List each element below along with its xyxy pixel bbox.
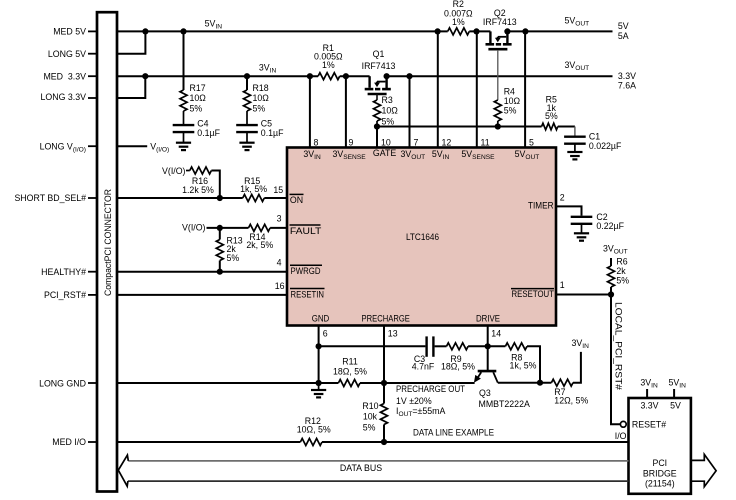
junction 5V rail / LONG 5V (142, 28, 148, 34)
pin tick MED 5V (88, 30, 97, 32)
svg-text:14: 14 (491, 329, 501, 339)
wire RESETOUT pin 1 (556, 294, 611, 296)
svg-text:RESETIN: RESETIN (291, 289, 325, 299)
svg-text:5: 5 (529, 137, 534, 147)
svg-text:HEALTHY#: HEALTHY# (41, 267, 86, 277)
svg-text:3.3V: 3.3V (618, 71, 636, 81)
pin tick LONG 3.3V (88, 97, 97, 99)
svg-text:16: 16 (275, 281, 285, 291)
svg-text:DRIVE: DRIVE (476, 313, 500, 323)
junction 3V rail / pin 9 (343, 73, 349, 79)
svg-text:IRF7413: IRF7413 (483, 17, 517, 27)
svg-text:R11: R11 (342, 357, 358, 367)
junction 5V rail / pin 5 (522, 28, 528, 34)
svg-text:DATA BUS: DATA BUS (340, 463, 382, 473)
junction comp line / pin 14 (485, 343, 491, 349)
svg-text:12: 12 (442, 137, 452, 147)
bridge 5V pin stub (673, 389, 675, 398)
resistor R15 (243, 195, 265, 202)
wire LONG 5V stub (117, 31, 145, 53)
bridge 3V pin stub (646, 389, 648, 398)
svg-text:10: 10 (381, 137, 391, 147)
svg-text:MED I/O: MED I/O (52, 437, 86, 447)
wire HEALTHY / PWRGD pin 4 (117, 271, 287, 273)
svg-text:5V: 5V (670, 400, 681, 410)
data bus right arrow (691, 454, 716, 486)
pin 11 stub (476, 31, 478, 147)
label R12 (297, 416, 331, 434)
pin tick LONG 5V (88, 53, 97, 55)
label R11 (333, 357, 367, 377)
svg-text:FAULT: FAULT (290, 226, 322, 236)
transistor Q2 (486, 28, 512, 100)
svg-text:Q1: Q1 (373, 49, 385, 59)
svg-text:10k: 10k (363, 412, 378, 422)
svg-text:3VOUT: 3VOUT (603, 243, 628, 255)
svg-text:13: 13 (388, 329, 398, 339)
ground C5 (239, 143, 254, 150)
svg-text:Q3: Q3 (479, 388, 491, 398)
svg-text:R10: R10 (362, 401, 378, 411)
svg-text:3VOUT: 3VOUT (565, 60, 590, 72)
label R2 (444, 0, 473, 27)
label R5 (545, 94, 558, 121)
svg-text:LONG 3.3V: LONG 3.3V (41, 92, 87, 102)
svg-text:RESET#: RESET# (632, 420, 666, 430)
svg-text:5%: 5% (545, 111, 558, 121)
svg-text:PWRGD: PWRGD (291, 266, 321, 276)
svg-text:PCI_RST#: PCI_RST# (44, 290, 86, 300)
pin 10 stub (376, 127, 378, 148)
svg-text:LOCAL_PCI_RST#: LOCAL_PCI_RST# (613, 302, 623, 390)
wire PRECHARGE OUT line (384, 382, 475, 384)
svg-text:1V ±20%: 1V ±20% (396, 396, 432, 406)
wire PCI_RST / RESETIN pin 16 (117, 294, 287, 296)
svg-text:5VIN: 5VIN (669, 377, 687, 389)
svg-text:9: 9 (349, 137, 354, 147)
pin 12 stub (437, 31, 439, 147)
wire LONG 3.3V stub (117, 76, 145, 98)
svg-text:2k, 5%: 2k, 5% (246, 240, 273, 250)
resistor R12 (300, 439, 322, 446)
svg-text:0.1µF: 0.1µF (197, 128, 220, 138)
svg-text:R3: R3 (382, 95, 393, 105)
data bus shaft bottom (128, 480, 629, 482)
svg-text:LONG V(I/O): LONG V(I/O) (40, 141, 86, 153)
ground GND pin (311, 383, 326, 397)
capacitor C5 (236, 125, 258, 143)
resistor R2 (448, 28, 470, 35)
junction comp line / pin 6 (316, 343, 322, 349)
svg-text:10Ω: 10Ω (253, 93, 270, 103)
svg-text:CompactPCI CONNECTOR: CompactPCI CONNECTOR (103, 189, 113, 296)
junction gate line / pin 10 (374, 123, 380, 129)
junction GND line / pin 13 (381, 380, 387, 386)
label R1 (314, 43, 343, 70)
svg-text:PRECHARGE OUT: PRECHARGE OUT (396, 384, 466, 394)
svg-text:10Ω: 10Ω (190, 93, 207, 103)
junction collector line / R8 (537, 380, 543, 386)
wire LONG GND line (117, 382, 384, 384)
pin 14 stub (487, 326, 489, 372)
junction GND line / pin 6 (316, 380, 322, 386)
junction 5V rail / pin 12 (435, 28, 441, 34)
resistor R9 (447, 343, 469, 350)
svg-text:I/O: I/O (615, 431, 627, 441)
label R14 (246, 232, 273, 250)
wire collector line (498, 352, 581, 383)
junction 3V rail / pin 8 (307, 73, 313, 79)
capacitor C2 (571, 217, 593, 234)
svg-text:V(I/O): V(I/O) (182, 222, 206, 232)
LTC1646 box (287, 148, 556, 326)
junction gate line / R4 (495, 123, 501, 129)
pin 7 stub (409, 76, 411, 147)
svg-text:5%: 5% (363, 423, 376, 433)
svg-text:MED 3.3V: MED 3.3V (43, 71, 86, 81)
resistor R10 (381, 383, 388, 442)
wire LOCAL_PCI_RST# (611, 295, 620, 425)
svg-text:3VIN: 3VIN (640, 377, 658, 389)
svg-text:3VIN: 3VIN (259, 63, 277, 75)
svg-text:1%: 1% (452, 17, 465, 27)
ground C4 (176, 143, 191, 150)
svg-text:2: 2 (560, 192, 565, 202)
pin 13 stub (383, 326, 385, 384)
resistor R3 (374, 95, 381, 127)
svg-text:0.022µF: 0.022µF (589, 141, 622, 151)
svg-text:PRECHARGE: PRECHARGE (362, 313, 410, 323)
svg-text:BRIDGE: BRIDGE (643, 469, 677, 479)
svg-text:8: 8 (314, 137, 319, 147)
data bus left arrowhead (118, 455, 128, 486)
wire GATE line (377, 126, 575, 128)
svg-text:PCI: PCI (652, 458, 667, 468)
pin 6 stub (318, 326, 320, 384)
svg-text:5%: 5% (382, 117, 395, 127)
svg-text:5%: 5% (190, 103, 203, 113)
label R16 (182, 176, 214, 195)
wire compensation line (319, 346, 540, 382)
wire SHORT BD_SEL / ON pin 15 (117, 197, 287, 199)
junction 5V rail / pin 11 (473, 28, 479, 34)
svg-text:3: 3 (277, 214, 282, 224)
resistor R4 (494, 100, 501, 127)
label Q2 (483, 8, 517, 27)
pin 9 stub (345, 76, 347, 147)
transistor Q1 (365, 73, 391, 100)
resistor R14 (249, 224, 271, 231)
label R8 (510, 352, 537, 370)
CompactPCI connector box (97, 12, 117, 491)
svg-text:SHORT BD_SEL#: SHORT BD_SEL# (14, 193, 86, 203)
label R15 (240, 176, 267, 194)
svg-text:0.22µF: 0.22µF (596, 221, 624, 231)
svg-text:GATE: GATE (373, 148, 396, 158)
svg-text:5VIN: 5VIN (205, 19, 223, 31)
PCI bridge box (629, 398, 691, 494)
svg-text:3VIN: 3VIN (572, 338, 590, 350)
svg-text:5V: 5V (618, 21, 629, 31)
svg-text:5VOUT: 5VOUT (565, 16, 590, 28)
pin tick LONG V(I/O) (88, 145, 97, 147)
capacitor C4 (173, 125, 195, 143)
svg-text:5%: 5% (616, 276, 629, 286)
svg-text:MMBT2222A: MMBT2222A (479, 399, 530, 409)
svg-text:MED 5V: MED 5V (53, 27, 86, 37)
svg-text:V(I/O): V(I/O) (150, 141, 169, 153)
wire FAULT pin 3 (207, 227, 288, 229)
svg-text:R4: R4 (504, 87, 515, 97)
capacitor C3 (427, 336, 434, 356)
wire 3VIN rail (117, 75, 613, 77)
resistor R8 (505, 343, 527, 350)
junction 3V rail / pin 7 (406, 73, 412, 79)
svg-text:5A: 5A (618, 31, 629, 41)
capacitor C1 (564, 137, 586, 152)
svg-text:GND: GND (312, 313, 330, 323)
label R9 (441, 354, 475, 372)
pin tick HEALTHY# (88, 271, 97, 273)
svg-text:4.7nF: 4.7nF (412, 362, 435, 372)
svg-text:5%: 5% (504, 106, 517, 116)
svg-text:ON: ON (290, 195, 303, 205)
resistor R5 (542, 123, 558, 130)
wire V(I/O) stub (117, 145, 147, 147)
pin tick MED I/O (88, 441, 97, 443)
ground C1 (567, 152, 582, 159)
svg-text:1k, 5%: 1k, 5% (240, 184, 267, 194)
svg-text:1: 1 (560, 280, 565, 290)
svg-text:10Ω, 5%: 10Ω, 5% (297, 425, 331, 435)
svg-text:18Ω, 5%: 18Ω, 5% (441, 362, 475, 372)
svg-text:7: 7 (414, 137, 419, 147)
svg-text:1.2k 5%: 1.2k 5% (182, 185, 214, 195)
resistor R17 (180, 31, 187, 124)
label Q1 (362, 49, 396, 71)
svg-text:1%: 1% (322, 60, 335, 70)
transistor Q3 (474, 371, 498, 383)
svg-text:IRF7413: IRF7413 (362, 61, 396, 71)
svg-text:TIMER: TIMER (528, 200, 554, 210)
pin tick SHORT BD_SEL# (88, 197, 97, 199)
junction MED I/O / R10 (381, 439, 387, 445)
resistor R16 (186, 167, 220, 198)
svg-text:5%: 5% (227, 253, 240, 263)
wire TIMER pin 2 (556, 206, 582, 215)
resistor R13 (216, 228, 223, 272)
svg-text:11: 11 (481, 137, 490, 147)
pin tick PCI_RST# (88, 294, 97, 296)
junction RESETOUT / R6 (608, 291, 614, 297)
svg-text:IOUT=±55mA: IOUT=±55mA (396, 406, 445, 418)
svg-text:RESETOUT: RESETOUT (512, 289, 555, 299)
data bus shaft top (128, 460, 628, 462)
svg-text:(21154): (21154) (645, 479, 675, 489)
junction 5V rail / R17 (180, 28, 186, 34)
wire MED I/O line (117, 441, 629, 443)
junction PWRGD / R13 bottom (217, 269, 223, 275)
label C3 (412, 354, 435, 372)
svg-text:10Ω: 10Ω (382, 106, 399, 116)
svg-text:15: 15 (273, 185, 283, 195)
pin tick LONG GND (88, 382, 97, 384)
svg-text:2k: 2k (616, 266, 626, 276)
svg-text:5%: 5% (253, 103, 266, 113)
wire 5VIN rail (117, 30, 613, 32)
RESET# bubble (620, 421, 626, 427)
junction 3V rail / R18 (244, 73, 250, 79)
svg-text:7.6A: 7.6A (618, 81, 636, 91)
svg-text:1k, 5%: 1k, 5% (510, 360, 537, 370)
svg-text:6: 6 (323, 329, 328, 339)
svg-text:R17: R17 (190, 83, 206, 93)
svg-text:R18: R18 (253, 83, 269, 93)
resistor R11 (338, 380, 360, 387)
resistor R1 (318, 73, 340, 80)
resistor R6 (608, 258, 615, 295)
svg-text:V(I/O): V(I/O) (162, 166, 186, 176)
svg-text:12Ω, 5%: 12Ω, 5% (554, 395, 588, 405)
svg-text:4: 4 (277, 257, 282, 267)
svg-text:LONG GND: LONG GND (39, 378, 86, 388)
junction BD_SEL / R16 (217, 195, 223, 201)
svg-text:18Ω, 5%: 18Ω, 5% (333, 367, 367, 377)
svg-text:DATA LINE EXAMPLE: DATA LINE EXAMPLE (413, 428, 494, 438)
pin 5 stub (524, 31, 526, 147)
resistor R7 (551, 379, 573, 386)
svg-text:3.3V: 3.3V (640, 400, 658, 410)
svg-text:R6: R6 (616, 256, 627, 266)
junction 3V rail / LONG 3.3V (142, 73, 148, 79)
pin tick MED 3.3V (88, 75, 97, 77)
pin 8 stub (309, 76, 311, 147)
junction FAULT / R13 top (217, 225, 223, 231)
svg-text:0.1µF: 0.1µF (261, 128, 284, 138)
resistor R18 (244, 76, 251, 124)
svg-text:LTC1646: LTC1646 (406, 232, 439, 242)
ground C2 (574, 233, 589, 240)
svg-text:LONG 5V: LONG 5V (48, 49, 86, 59)
